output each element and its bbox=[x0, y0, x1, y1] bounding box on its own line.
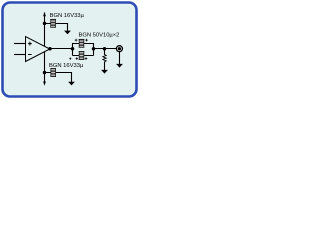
wire: non-inverting input bbox=[14, 43, 26, 45]
ground (load resistor) bbox=[101, 70, 108, 74]
node: op-amp output bbox=[48, 47, 52, 51]
wire: output to coupling caps bbox=[50, 48, 73, 50]
wire: down to resistor bbox=[104, 49, 106, 55]
polarity marks bottom branch bbox=[69, 58, 71, 60]
arrow V+ up bbox=[43, 12, 46, 16]
capacitor C3 (top of BGN 50V10u x2) bbox=[79, 39, 85, 48]
wire: V+ decoupling branch bbox=[45, 24, 68, 31]
node: load resistor tap bbox=[103, 47, 107, 51]
node: left junction of parallel caps bbox=[71, 47, 75, 51]
capacitor C2 BGN 16V33u bbox=[50, 68, 56, 77]
ground (V- branch) bbox=[68, 82, 75, 86]
node: junction V+ rail bbox=[43, 22, 47, 26]
svg-text:BGN 16V33µ: BGN 16V33µ bbox=[49, 63, 84, 69]
wire: V- decoupling branch bbox=[45, 73, 72, 82]
wire: jack sleeve to ground bbox=[119, 52, 121, 65]
op-amp U1 bbox=[26, 37, 50, 62]
wire: V- supply vertical bbox=[44, 52, 46, 82]
svg-text:BGN 50V10µ×2: BGN 50V10µ×2 bbox=[79, 33, 120, 39]
svg-text:BGN 16V33µ: BGN 16V33µ bbox=[50, 13, 85, 19]
op-amp plus input marking bbox=[28, 42, 32, 46]
wire: left vertical bar bbox=[72, 43, 74, 56]
wire: to load resistor node bbox=[94, 48, 117, 50]
connector J1 (output jack) bbox=[116, 46, 122, 52]
wire: right vertical bar bbox=[93, 43, 95, 56]
border frame bbox=[3, 3, 137, 97]
wire: bottom branch bbox=[73, 55, 94, 57]
capacitor C1 BGN 16V33u bbox=[50, 19, 56, 28]
wire: top branch bbox=[73, 43, 94, 45]
wire: V+ supply vertical bbox=[44, 13, 46, 47]
wire: inverting input bbox=[14, 54, 26, 56]
wire: resistor to ground bbox=[104, 62, 106, 70]
node: junction V- rail bbox=[43, 71, 47, 75]
ground (jack) bbox=[116, 64, 123, 68]
node: right junction of parallel caps bbox=[92, 47, 96, 51]
resistor R1 (zigzag) bbox=[103, 55, 106, 62]
op-amp minus input marking bbox=[28, 54, 32, 56]
ground (V+ branch) bbox=[64, 31, 71, 35]
polarity marks top branch bbox=[75, 39, 78, 42]
capacitor C4 (bottom of BGN 50V10u x2) bbox=[79, 51, 85, 60]
arrow V- down bbox=[43, 82, 46, 86]
